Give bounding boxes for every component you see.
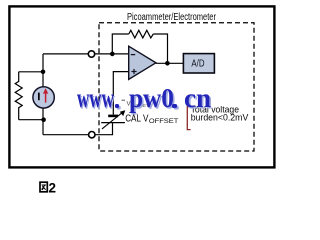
svg-text:OFFSET: OFFSET — [149, 118, 179, 125]
svg-text:CAL V: CAL V — [125, 114, 149, 125]
svg-text:burden<0.2mV: burden<0.2mV — [191, 112, 249, 123]
svg-text:2: 2 — [49, 180, 57, 195]
svg-text:Picoammeter/Electrometer: Picoammeter/Electrometer — [127, 12, 216, 23]
svg-text:A/D: A/D — [191, 59, 204, 70]
